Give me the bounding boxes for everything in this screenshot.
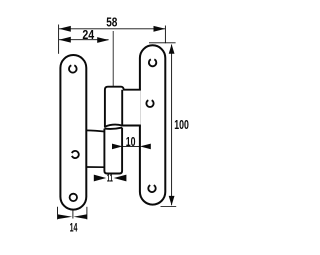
arrowhead 11 right — [114, 175, 127, 182]
left leaf tab bottom edge — [86, 166, 104, 168]
left leaf hole bottom — [70, 194, 77, 201]
lower knuckle attached to left leaf — [104, 128, 122, 174]
arrowhead 14 right — [74, 214, 87, 219]
svg-text:10: 10 — [126, 135, 136, 149]
center tick 14 — [72, 211, 74, 219]
extension line right edge — [164, 26, 166, 44]
arrowhead 58 left — [59, 26, 71, 32]
svg-text:58: 58 — [106, 15, 117, 30]
dim 58 line — [59, 28, 165, 30]
extension line 14 right — [86, 207, 88, 220]
arrowhead 10 right — [140, 144, 151, 150]
arrowhead 10 left — [112, 144, 123, 150]
arrowhead 58 right — [154, 26, 166, 32]
arrowhead 24 right — [97, 37, 109, 43]
pin axis extension line — [112, 31, 114, 86]
right leaf hole bottom — [148, 185, 155, 192]
left leaf hole top — [69, 65, 77, 72]
extension line right plate bottom — [161, 205, 177, 207]
left leaf tab top edge — [86, 130, 105, 131]
dim 24 line — [59, 39, 109, 41]
arrowhead 100 up — [169, 44, 175, 54]
arrowhead 100 down — [169, 196, 175, 206]
arrowhead 14 left — [58, 214, 72, 219]
dim 10 line — [123, 145, 140, 147]
svg-text:11: 11 — [107, 173, 113, 185]
extension line 14 left — [57, 207, 59, 220]
svg-text:14: 14 — [70, 220, 78, 234]
arrowhead 24 left — [59, 37, 71, 43]
arrowhead 11 left — [94, 175, 106, 182]
upper knuckle attached to right leaf — [105, 87, 141, 127]
left leaf plate — [60, 55, 86, 210]
extension line right plate top — [149, 42, 176, 44]
right leaf hole top — [149, 59, 156, 66]
extension line left edge — [58, 25, 60, 54]
svg-text:24: 24 — [82, 27, 95, 42]
upper knuckle right edge — [121, 90, 123, 126]
left leaf hole middle — [72, 151, 79, 158]
dim 100 line — [171, 45, 173, 206]
svg-text:100: 100 — [174, 117, 189, 132]
right leaf hole middle — [146, 100, 153, 107]
right leaf plate — [140, 45, 165, 204]
